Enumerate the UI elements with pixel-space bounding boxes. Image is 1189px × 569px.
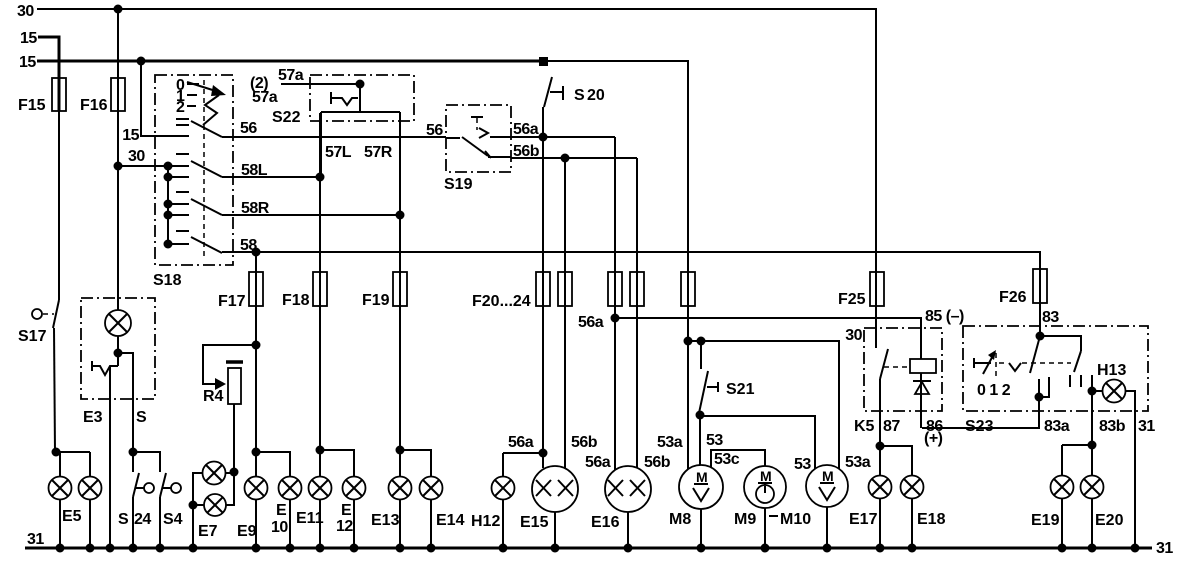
svg-text:83: 83	[1042, 309, 1059, 326]
svg-text:E16: E16	[591, 514, 620, 531]
svg-text:S: S	[118, 511, 129, 528]
svg-text:E: E	[276, 502, 287, 519]
svg-text:10: 10	[271, 519, 288, 536]
svg-text:(+): (+)	[924, 430, 943, 447]
svg-text:31: 31	[1156, 540, 1173, 557]
svg-text:30: 30	[17, 3, 34, 20]
svg-text:F17: F17	[218, 293, 246, 310]
svg-text:E15: E15	[520, 514, 549, 531]
svg-text:E9: E9	[237, 523, 257, 540]
svg-text:S4: S4	[163, 511, 183, 528]
svg-text:0 1 2: 0 1 2	[977, 382, 1011, 399]
svg-text:F26: F26	[999, 289, 1027, 306]
svg-text:58: 58	[240, 237, 257, 254]
svg-text:E13: E13	[371, 512, 400, 529]
svg-text:83a: 83a	[1044, 418, 1070, 435]
svg-text:F25: F25	[838, 291, 866, 308]
svg-text:E: E	[341, 502, 352, 519]
svg-text:56: 56	[426, 122, 443, 139]
svg-text:F18: F18	[282, 292, 310, 309]
svg-text:M9: M9	[734, 511, 756, 528]
svg-text:20: 20	[587, 87, 605, 104]
svg-text:H13: H13	[1097, 362, 1126, 379]
svg-text:E20: E20	[1095, 512, 1124, 529]
svg-text:15: 15	[19, 54, 36, 71]
svg-text:15: 15	[20, 30, 37, 47]
svg-text:E3: E3	[83, 409, 103, 426]
svg-text:56a: 56a	[513, 121, 539, 138]
svg-text:2: 2	[176, 99, 185, 116]
svg-text:87: 87	[883, 418, 900, 435]
svg-text:83b: 83b	[1099, 418, 1126, 435]
svg-text:F16: F16	[80, 97, 108, 114]
svg-text:E5: E5	[62, 508, 82, 525]
svg-text:56a: 56a	[585, 454, 611, 471]
svg-text:M10: M10	[780, 511, 811, 528]
svg-text:R4: R4	[203, 388, 224, 405]
svg-text:56: 56	[240, 120, 257, 137]
svg-text:E19: E19	[1031, 512, 1060, 529]
svg-text:E18: E18	[917, 511, 946, 528]
svg-text:S: S	[574, 87, 585, 104]
svg-text:53c: 53c	[714, 451, 740, 468]
svg-text:56a: 56a	[578, 314, 604, 331]
svg-text:E11: E11	[296, 510, 324, 527]
svg-text:M: M	[696, 469, 708, 485]
svg-text:56a: 56a	[508, 434, 534, 451]
svg-text:30: 30	[128, 148, 145, 165]
svg-text:S18: S18	[153, 272, 182, 289]
svg-text:S22: S22	[272, 109, 301, 126]
svg-text:S23: S23	[965, 418, 994, 435]
svg-text:H12: H12	[471, 513, 500, 530]
svg-text:M: M	[822, 468, 834, 484]
svg-text:31: 31	[1138, 418, 1155, 435]
svg-text:F19: F19	[362, 292, 390, 309]
svg-text:E7: E7	[198, 523, 218, 540]
svg-text:F20...24: F20...24	[472, 293, 531, 310]
svg-text:30: 30	[845, 327, 862, 344]
svg-text:53a: 53a	[845, 454, 871, 471]
svg-text:53: 53	[706, 432, 723, 449]
svg-text:53: 53	[794, 456, 811, 473]
svg-text:56b: 56b	[571, 434, 598, 451]
svg-text:S19: S19	[444, 176, 473, 193]
svg-text:15: 15	[122, 127, 139, 144]
svg-text:57a: 57a	[278, 67, 304, 84]
svg-text:85 (–): 85 (–)	[925, 308, 964, 325]
svg-text:S21: S21	[726, 381, 755, 398]
svg-text:24: 24	[134, 511, 151, 528]
svg-text:57L: 57L	[325, 144, 352, 161]
svg-text:12: 12	[336, 518, 353, 535]
svg-text:K5: K5	[854, 418, 875, 435]
svg-text:53a: 53a	[657, 434, 683, 451]
svg-text:F15: F15	[18, 97, 46, 114]
svg-text:E14: E14	[436, 512, 465, 529]
svg-text:31: 31	[27, 531, 44, 548]
svg-text:57R: 57R	[364, 144, 393, 161]
svg-text:56b: 56b	[644, 454, 671, 471]
svg-text:E17: E17	[849, 511, 878, 528]
svg-text:S17: S17	[18, 328, 47, 345]
svg-text:S: S	[136, 409, 147, 426]
svg-text:M8: M8	[669, 511, 691, 528]
svg-text:57a: 57a	[252, 89, 278, 106]
svg-text:M: M	[760, 468, 772, 484]
